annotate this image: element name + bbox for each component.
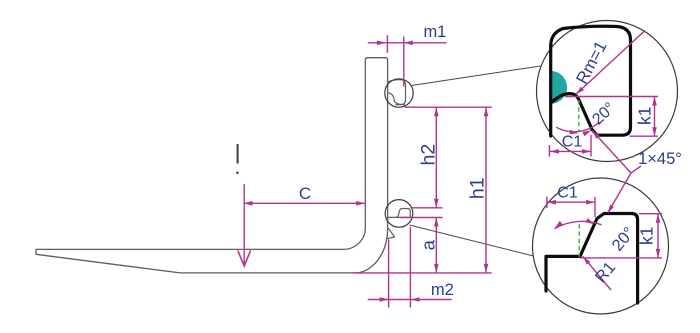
svg-text:20°: 20° xyxy=(608,224,638,255)
c vertical line xyxy=(243,184,245,265)
leader line to bottom detail xyxy=(410,225,534,256)
svg-text:C1: C1 xyxy=(562,133,583,150)
top C1 dim xyxy=(550,150,591,152)
svg-text:a: a xyxy=(417,239,438,250)
dimension lines magenta xyxy=(238,35,492,308)
detail arrows xyxy=(547,87,660,265)
svg-text:R1: R1 xyxy=(592,259,619,287)
m1 ext right xyxy=(403,37,405,87)
svg-text:k1: k1 xyxy=(634,107,654,125)
detail dimension lines xyxy=(547,31,662,291)
top C1 xyxy=(550,149,559,154)
bottom k1 dim xyxy=(639,213,662,215)
m2 arrows xyxy=(380,297,389,302)
svg-text:h1: h1 xyxy=(466,177,488,199)
top hook on shank xyxy=(388,80,406,105)
svg-text:m2: m2 xyxy=(431,281,454,299)
big detail circle top xyxy=(537,21,678,162)
Rm=1 leader xyxy=(576,31,645,95)
top k1 dim xyxy=(565,96,658,98)
Rm=1 arrow xyxy=(576,87,584,95)
bottom C1 xyxy=(547,200,556,205)
bottom detail hook profile thick xyxy=(546,214,638,304)
green dashed projection lines xyxy=(578,100,581,257)
svg-text:C1: C1 xyxy=(557,185,578,202)
R1 arrow xyxy=(583,256,591,264)
a dim line xyxy=(435,218,437,273)
h2 dim line xyxy=(435,107,437,208)
leader line to top detail xyxy=(412,66,541,86)
svg-text:1×45°: 1×45° xyxy=(638,150,682,168)
dim c line xyxy=(244,202,366,204)
ext line top (h1 h2) xyxy=(405,106,492,108)
big detail circle bottom xyxy=(533,178,669,314)
detail indicator circle bottom xyxy=(385,200,413,228)
svg-text:20°: 20° xyxy=(589,100,618,129)
bottom 20 arc xyxy=(555,221,602,228)
c arrows xyxy=(244,201,253,206)
a ext top xyxy=(400,217,443,219)
a arrows xyxy=(434,218,439,227)
svg-text:h2: h2 xyxy=(418,144,440,166)
svg-text:k1: k1 xyxy=(636,227,656,245)
R1 leader xyxy=(583,256,611,290)
top arc arrows xyxy=(569,130,578,135)
m1 arrows xyxy=(377,41,386,46)
svg-text:Rm=1: Rm=1 xyxy=(572,38,610,87)
top detail hook profile thick xyxy=(551,26,631,136)
1x45 leaders xyxy=(592,131,631,213)
h2 ext bottom xyxy=(411,207,443,209)
h2 arrows xyxy=(434,107,439,116)
ext line bottom long xyxy=(352,272,492,274)
m2 ext left xyxy=(388,240,390,308)
fork blade and shank outline xyxy=(36,58,388,273)
bottom k1 xyxy=(656,214,661,223)
bottom arc arrows xyxy=(555,221,563,229)
h1 arrows xyxy=(484,107,489,116)
svg-text:m1: m1 xyxy=(423,23,446,41)
m1 ext left xyxy=(386,35,388,53)
teal radius zone xyxy=(551,71,567,104)
c open arrow xyxy=(238,251,251,267)
top k1 xyxy=(652,97,657,106)
m2 ext right xyxy=(409,227,411,308)
dim m1 line xyxy=(368,42,447,44)
centerline dash and dot xyxy=(237,144,239,164)
top 20 arc xyxy=(556,122,599,132)
bottom C1 dim xyxy=(547,201,595,203)
1x45 arrows xyxy=(592,131,600,139)
h1 dim line xyxy=(485,107,487,273)
lower hook on shank xyxy=(388,209,411,239)
detail indicator circle top xyxy=(385,79,413,107)
dimension arrows xyxy=(244,41,489,302)
svg-text:C: C xyxy=(299,184,311,203)
m2 dim line xyxy=(368,299,452,301)
